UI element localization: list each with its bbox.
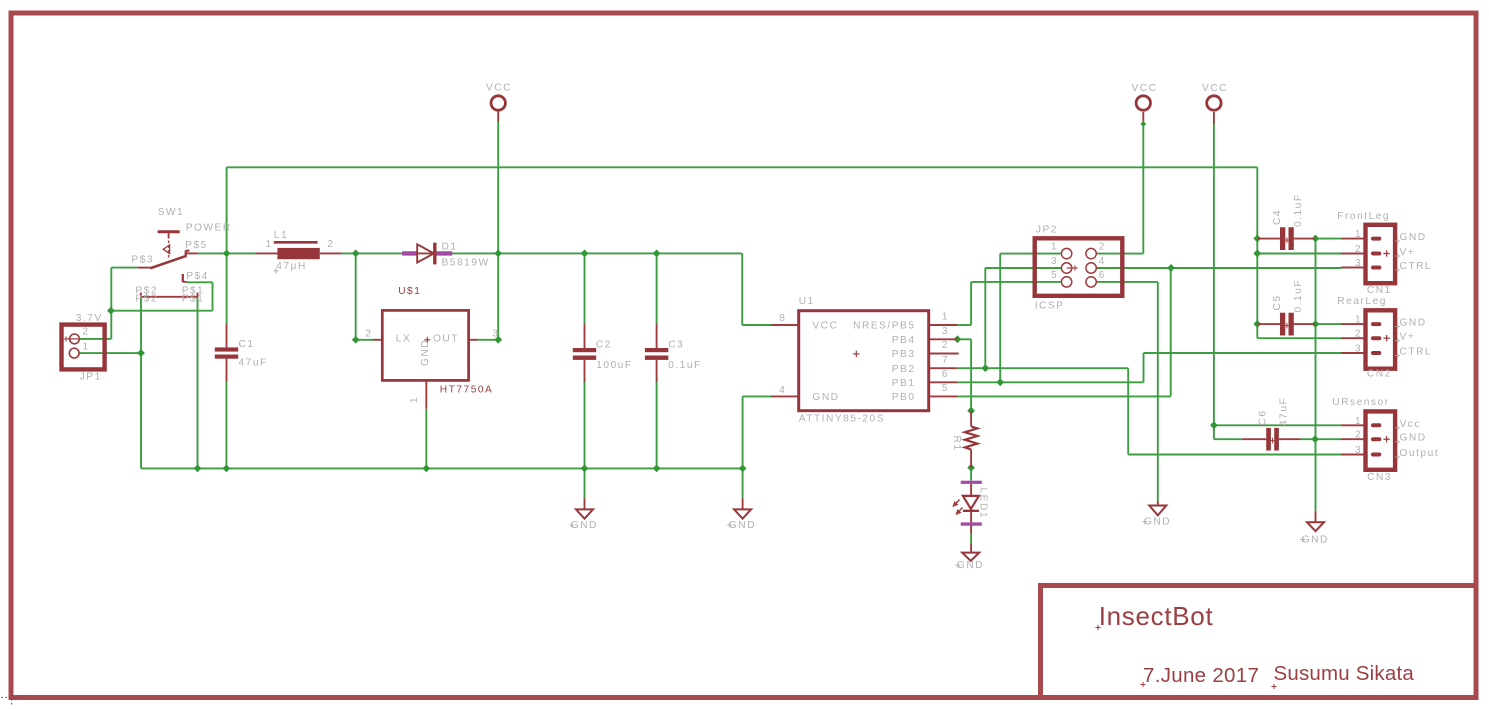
- svg-text:Output: Output: [1400, 448, 1440, 459]
- svg-text:2: 2: [365, 328, 372, 339]
- svg-text:NRES/PB5: NRES/PB5: [853, 321, 915, 332]
- svg-text:P$4: P$4: [186, 271, 209, 282]
- svg-text:PB1: PB1: [892, 378, 916, 389]
- svg-text:ICSP: ICSP: [1035, 300, 1065, 311]
- svg-text:47µH: 47µH: [276, 261, 307, 272]
- svg-text:C4: C4: [1272, 209, 1283, 225]
- svg-text:POWER: POWER: [186, 223, 232, 234]
- svg-text:CTRL: CTRL: [1400, 347, 1433, 358]
- svg-text:2: 2: [83, 327, 90, 338]
- svg-text:OUT: OUT: [433, 334, 459, 345]
- svg-text:1: 1: [1355, 416, 1362, 427]
- svg-text:SW1: SW1: [158, 207, 185, 218]
- svg-text:2: 2: [1355, 244, 1362, 255]
- svg-text:ATTINY85-20S: ATTINY85-20S: [799, 414, 885, 425]
- svg-text:GND: GND: [571, 520, 598, 531]
- svg-text:2: 2: [328, 239, 335, 250]
- svg-text:VCC: VCC: [812, 320, 838, 331]
- svg-text:7: 7: [942, 355, 949, 366]
- svg-text:GND: GND: [1302, 535, 1329, 546]
- svg-text:PB3: PB3: [892, 349, 916, 360]
- svg-text:1: 1: [409, 396, 420, 403]
- svg-text:3: 3: [1051, 256, 1058, 267]
- svg-text:R1: R1: [951, 436, 962, 452]
- svg-text:U$1: U$1: [398, 286, 421, 297]
- svg-text:C3: C3: [668, 340, 684, 351]
- svg-text:B5819W: B5819W: [442, 257, 490, 268]
- svg-text:V+: V+: [1400, 332, 1416, 343]
- svg-text:VCC: VCC: [1202, 83, 1228, 94]
- svg-text:1: 1: [942, 312, 949, 323]
- svg-text:CTRL: CTRL: [1400, 261, 1433, 272]
- svg-text:P$1: P$1: [182, 294, 205, 305]
- svg-text:RearLeg: RearLeg: [1337, 296, 1387, 307]
- svg-text:4: 4: [779, 385, 786, 396]
- svg-text:PB0: PB0: [892, 392, 916, 403]
- svg-text:PB4: PB4: [892, 335, 916, 346]
- svg-text:P$3: P$3: [131, 255, 154, 266]
- svg-text:3.7V: 3.7V: [76, 313, 103, 324]
- svg-text:6: 6: [1099, 270, 1106, 281]
- svg-text:3: 3: [492, 328, 499, 339]
- svg-text:3: 3: [1355, 445, 1362, 456]
- svg-text:1: 1: [83, 342, 90, 353]
- svg-text:2: 2: [942, 340, 949, 351]
- svg-text:C1: C1: [239, 339, 255, 350]
- svg-text:5: 5: [942, 383, 949, 394]
- svg-text:FrontLeg: FrontLeg: [1337, 211, 1390, 222]
- svg-text:GND: GND: [812, 392, 839, 403]
- svg-text:3: 3: [942, 326, 949, 337]
- svg-text:V+: V+: [1400, 247, 1416, 258]
- svg-text:CN3: CN3: [1367, 472, 1392, 483]
- svg-text:2: 2: [1099, 242, 1106, 253]
- svg-text:47uF: 47uF: [1279, 397, 1290, 426]
- svg-text:U1: U1: [799, 296, 815, 307]
- svg-text:HT7750A: HT7750A: [440, 384, 494, 395]
- svg-text:P$5: P$5: [185, 240, 208, 251]
- svg-text:0.1uF: 0.1uF: [1293, 279, 1304, 313]
- svg-text:URsensor: URsensor: [1332, 397, 1389, 408]
- svg-text:1: 1: [1355, 315, 1362, 326]
- svg-text:1: 1: [266, 239, 273, 250]
- svg-text:GND: GND: [957, 560, 984, 571]
- svg-text:8: 8: [779, 313, 786, 324]
- svg-text:L1: L1: [274, 230, 288, 241]
- svg-text:100uF: 100uF: [596, 360, 632, 371]
- svg-text:1: 1: [1355, 229, 1362, 240]
- svg-text:GND: GND: [1400, 318, 1427, 329]
- svg-text:CN1: CN1: [1367, 285, 1392, 296]
- svg-text:C2: C2: [596, 340, 612, 351]
- svg-text:P$2: P$2: [135, 294, 158, 305]
- svg-text:LX: LX: [396, 334, 411, 345]
- svg-text:GND: GND: [1144, 517, 1171, 528]
- svg-text:D1: D1: [442, 242, 458, 253]
- svg-text:C5: C5: [1272, 294, 1283, 310]
- svg-text:4: 4: [1099, 256, 1106, 267]
- svg-text:VCC: VCC: [486, 83, 512, 94]
- svg-text:LED1: LED1: [977, 488, 988, 519]
- svg-text:PB2: PB2: [892, 364, 916, 375]
- svg-text:C6: C6: [1258, 409, 1269, 425]
- svg-text:47uF: 47uF: [239, 358, 268, 369]
- svg-text:5: 5: [1051, 270, 1058, 281]
- svg-text:0.1uF: 0.1uF: [1293, 193, 1304, 227]
- svg-text:0.1uF: 0.1uF: [668, 360, 702, 371]
- svg-text:GND: GND: [420, 339, 431, 366]
- svg-text:Susumu Sikata: Susumu Sikata: [1274, 662, 1415, 685]
- svg-text:JP2: JP2: [1036, 225, 1058, 236]
- svg-text:1: 1: [1051, 242, 1058, 253]
- svg-text:VCC: VCC: [1132, 83, 1158, 94]
- svg-text:3: 3: [1355, 344, 1362, 355]
- svg-text:2: 2: [1355, 430, 1362, 441]
- svg-text:GND: GND: [729, 520, 756, 531]
- svg-text:6: 6: [942, 369, 949, 380]
- svg-text:GND: GND: [1400, 232, 1427, 243]
- svg-text:3: 3: [1355, 258, 1362, 269]
- svg-text:JP1: JP1: [80, 371, 102, 382]
- svg-text:CN2: CN2: [1367, 368, 1392, 379]
- svg-text:InsectBot: InsectBot: [1099, 601, 1214, 631]
- svg-text:GND: GND: [1400, 433, 1427, 444]
- svg-text:Vcc: Vcc: [1400, 419, 1421, 430]
- svg-text:7.June 2017: 7.June 2017: [1143, 664, 1259, 687]
- svg-text:2: 2: [1355, 329, 1362, 340]
